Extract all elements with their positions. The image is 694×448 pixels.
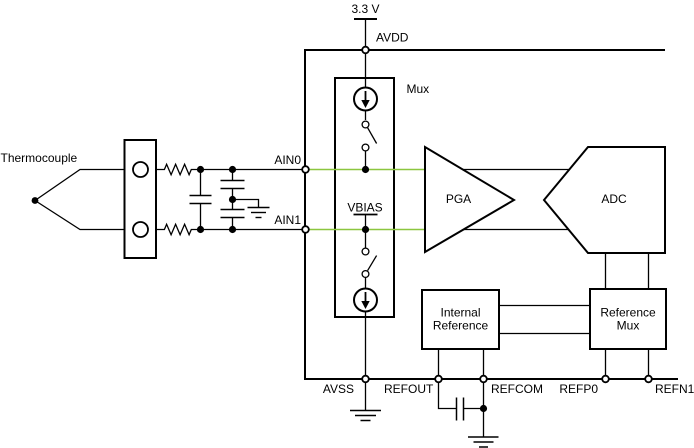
wire internal reference to reference mux upper xyxy=(499,305,590,307)
ADC block xyxy=(544,147,665,253)
capacitor C3 xyxy=(232,200,234,210)
wire ADC to reference mux left pin xyxy=(605,253,607,289)
chip outline top rail (AVDD) xyxy=(305,49,665,51)
wire 3.3V to AVDD node xyxy=(365,19,367,50)
chip outline left edge xyxy=(304,49,306,380)
node AVSS xyxy=(362,376,369,383)
wire AVDD node down to current source xyxy=(365,50,367,87)
wire internal reference to reference mux lower xyxy=(499,333,590,335)
VBIAS bar xyxy=(354,214,378,216)
capacitor C2 xyxy=(232,170,234,181)
node REFN1 xyxy=(645,376,652,383)
connector J1 pin 2 xyxy=(133,222,148,237)
wire thermocouple lower lead xyxy=(35,201,125,230)
wire ADC to reference mux right pin xyxy=(648,253,650,289)
ground (REFCOM) xyxy=(468,436,499,438)
ground (filter) xyxy=(248,207,270,209)
wire C2-C3 midpoint to ground xyxy=(233,200,259,208)
junction dot R1-C1 xyxy=(197,166,204,173)
wire R1 to AIN0 pin xyxy=(233,169,305,171)
reference mux box xyxy=(590,289,666,349)
node REFP0 xyxy=(602,376,609,383)
junction dot C3 bottom xyxy=(229,226,236,233)
wire switch S1 to AIN0 line xyxy=(365,151,367,170)
svg-text:VBIAS: VBIAS xyxy=(347,201,382,215)
capacitor C4 xyxy=(456,398,458,421)
wire reference mux REFP0 pin xyxy=(605,349,607,379)
svg-text:ADC: ADC xyxy=(601,192,627,206)
wire switch S2 to current source I2 xyxy=(365,278,367,289)
node AVDD xyxy=(362,47,369,54)
wire junction to ground xyxy=(483,409,485,438)
junction dot R2-C1 xyxy=(197,226,204,233)
wire AIN0 green xyxy=(306,169,426,171)
svg-text:AIN1: AIN1 xyxy=(274,213,301,227)
svg-text:Internal: Internal xyxy=(440,306,480,320)
svg-text:Reference: Reference xyxy=(433,319,489,333)
junction dot C4 xyxy=(480,405,487,412)
internal reference box xyxy=(422,290,499,349)
resistor R2 xyxy=(156,224,233,234)
supply 3.3 V bar xyxy=(354,18,377,20)
svg-text:Reference: Reference xyxy=(600,306,656,320)
svg-text:REFOUT: REFOUT xyxy=(384,382,434,396)
current source I2 xyxy=(354,289,377,312)
chip outline bottom rail (AVSS) xyxy=(305,378,678,380)
node REFOUT xyxy=(435,376,442,383)
node AIN1 xyxy=(302,226,309,233)
wire R2 to AIN1 pin xyxy=(233,229,305,231)
connector J1 pin 1 xyxy=(133,162,148,177)
thermocouple junction xyxy=(32,197,39,204)
wire VBIAS to AIN1 line xyxy=(365,215,367,230)
svg-text:REFCOM: REFCOM xyxy=(491,382,543,396)
svg-text:Mux: Mux xyxy=(407,82,430,96)
wire AIN1 to switch S2 xyxy=(365,230,367,249)
switch S2 xyxy=(362,248,369,255)
wire REFCOM down to junction xyxy=(483,383,485,409)
wire AVSS to ground xyxy=(365,383,367,411)
svg-text:AVDD: AVDD xyxy=(376,31,409,45)
wire reference mux REFN1 pin xyxy=(648,349,650,379)
wire internal reference REFOUT pin xyxy=(438,349,440,379)
junction dot C2 top xyxy=(229,166,236,173)
wire PGA to ADC bottom xyxy=(458,229,574,231)
wire thermocouple upper lead xyxy=(35,170,125,201)
svg-text:3.3 V: 3.3 V xyxy=(351,2,379,16)
junction dot C2-C3 xyxy=(229,196,236,203)
wire REFOUT down xyxy=(439,383,457,409)
wire current source to switch S1 xyxy=(365,111,367,120)
svg-text:Thermocouple: Thermocouple xyxy=(1,151,78,165)
node AIN0 xyxy=(302,166,309,173)
wire AIN1 green xyxy=(306,229,426,231)
svg-text:AIN0: AIN0 xyxy=(274,153,301,167)
node REFCOM xyxy=(480,376,487,383)
junction dot AIN1 mux xyxy=(362,226,369,233)
resistor R1 xyxy=(156,164,233,174)
svg-text:REFP0: REFP0 xyxy=(559,382,598,396)
connector J1 body xyxy=(125,140,157,258)
svg-text:Mux: Mux xyxy=(617,319,640,333)
ground (AVSS) xyxy=(350,410,381,412)
svg-text:PGA: PGA xyxy=(446,192,471,206)
capacitor C1 differential xyxy=(200,170,202,196)
wire internal reference REFCOM pin xyxy=(483,349,485,379)
op-amp PGA xyxy=(425,147,514,252)
mux box xyxy=(335,78,394,317)
junction dot AIN0 mux xyxy=(362,166,369,173)
svg-text:REFN1: REFN1 xyxy=(655,382,694,396)
wire C4 to REFCOM junction xyxy=(464,408,484,410)
svg-text:AVSS: AVSS xyxy=(323,382,354,396)
wire current source I2 to AVSS xyxy=(365,312,367,379)
wire PGA to ADC top xyxy=(458,169,574,171)
switch S1 xyxy=(362,121,369,128)
current source I1 xyxy=(354,88,377,111)
